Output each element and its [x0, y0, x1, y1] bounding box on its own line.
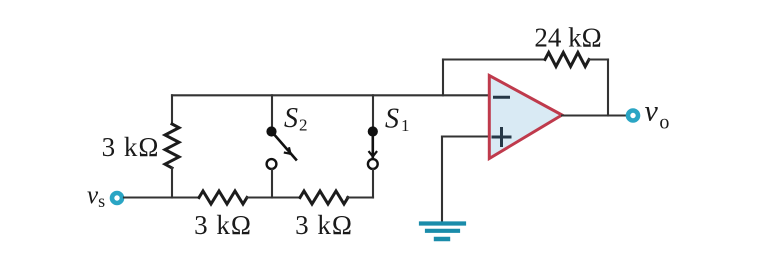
- wire: left vertical branch upper segment: [171, 95, 173, 124]
- svg-text:3 kΩ: 3 kΩ: [295, 210, 353, 240]
- wire: feedback right vertical down to output: [607, 60, 609, 116]
- node vo terminal: [628, 111, 638, 121]
- wire: bottom rail segment from vs node to R2: [124, 196, 199, 198]
- svg-text:S2: S2: [284, 103, 308, 135]
- wire: bottom rail segment from R3 to switch S1 branch: [347, 196, 373, 198]
- wire: switch S1 branch lower segment: [372, 170, 374, 198]
- wire: non-inverting input from ground branch: [442, 135, 489, 137]
- node vs terminal: [112, 193, 122, 203]
- svg-text:3 kΩ: 3 kΩ: [102, 132, 160, 162]
- resistor R3 3 kOhm (bottom right): [300, 191, 348, 204]
- wire: feedback rail left segment: [443, 58, 545, 60]
- wire: ground branch vertical: [441, 137, 443, 222]
- resistor Rf 24 kOhm (feedback): [545, 53, 589, 67]
- resistor R2 3 kOhm (bottom left): [199, 191, 247, 204]
- wire: top rail from left branch to op-amp inverting input: [172, 94, 489, 96]
- op-amp plus pin mark: [493, 129, 510, 146]
- wire: left vertical branch lower segment: [171, 168, 173, 198]
- wire: feedback rail right segment: [589, 58, 608, 60]
- svg-text:3 kΩ: 3 kΩ: [194, 210, 252, 240]
- wire: op-amp output: [562, 114, 627, 116]
- switch S2 (open): [267, 127, 296, 169]
- wire: feedback left vertical (inverting node up to feedback rail): [442, 60, 444, 96]
- wire: switch S2 branch upper segment: [271, 95, 273, 128]
- op-amp minus pin mark: [495, 96, 509, 99]
- svg-text:24 kΩ: 24 kΩ: [534, 23, 601, 53]
- wire: bottom rail segment between R2 and R3: [247, 196, 300, 198]
- switch S1 (closed): [368, 127, 378, 169]
- wire: switch S1 branch upper segment: [372, 95, 374, 128]
- resistor R1 3 kOhm (left vertical): [165, 124, 179, 168]
- svg-text:vo: vo: [645, 95, 670, 134]
- svg-text:vs: vs: [87, 182, 105, 211]
- svg-text:S1: S1: [385, 104, 410, 136]
- wire: switch S2 branch lower segment: [271, 170, 273, 198]
- ground: [421, 224, 464, 240]
- op-amp U1: [489, 76, 562, 159]
